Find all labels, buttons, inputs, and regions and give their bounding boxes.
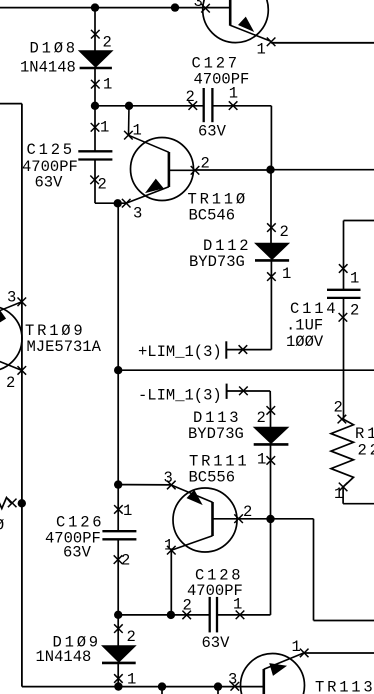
- pin 2 of D109: [114, 624, 123, 633]
- svg-text:2: 2: [280, 223, 289, 241]
- resistor (left, partial): [0, 498, 11, 509]
- wire TR111 pin1 down: [170, 550, 172, 615]
- svg-text:-LIM_1(3): -LIM_1(3): [138, 387, 222, 405]
- resistor R1: [331, 419, 354, 487]
- svg-text:2: 2: [98, 176, 107, 194]
- svg-text:2: 2: [350, 302, 359, 320]
- wire R1 to right edge: [343, 503, 374, 505]
- capacitor C114: [327, 290, 361, 298]
- svg-text:Ø: Ø: [0, 517, 4, 535]
- junction C125/TR110/vertical: [114, 199, 122, 207]
- capacitor C125: [78, 151, 112, 159]
- junction bottom rail / D109: [114, 682, 122, 690]
- svg-text:2: 2: [334, 399, 343, 417]
- pin 2 of TR110: [191, 166, 200, 175]
- transistor TR109 (partial): [0, 302, 22, 371]
- svg-text:TR113: TR113: [315, 679, 374, 694]
- wire TR110 base to node: [195, 169, 271, 171]
- svg-text:63V: 63V: [198, 123, 227, 141]
- capacitor C126: [102, 531, 136, 539]
- svg-text:2: 2: [121, 552, 130, 570]
- svg-text:1N4148: 1N4148: [36, 648, 92, 666]
- wire D112 cathode lead: [270, 170, 272, 243]
- pin of -LIM flag: [239, 387, 248, 396]
- pin 1 of R1: [339, 483, 348, 492]
- junction top rail: [171, 3, 179, 11]
- pin 1 of D108: [91, 80, 100, 89]
- pin 2 of TR111: [234, 514, 243, 523]
- wire R1 bottom lead: [342, 487, 344, 504]
- svg-text:2: 2: [103, 34, 112, 52]
- pin of left resistor: [8, 499, 17, 508]
- wire -LIM flag to D113: [227, 390, 271, 392]
- junction left rail / left resistor: [18, 499, 26, 507]
- svg-text:C125: C125: [27, 141, 75, 159]
- pin 3 of TR109: [18, 298, 27, 307]
- transistor TR112 (top, partial): [203, 0, 271, 43]
- D109 cathode bar: [102, 662, 136, 665]
- svg-text:BC546: BC546: [189, 207, 236, 225]
- diode D112: [255, 243, 289, 260]
- wire C127 pin1 to corner: [212, 105, 271, 107]
- svg-text:22Ø: 22Ø: [358, 442, 374, 460]
- D108 cathode bar: [80, 67, 112, 70]
- wire C125 to TR110 emitter node: [95, 202, 126, 204]
- pin 2 of C114: [339, 313, 348, 322]
- svg-text:BC556: BC556: [189, 469, 236, 487]
- svg-text:4700PF: 4700PF: [187, 582, 243, 600]
- pin 1 of TR111: [167, 546, 176, 555]
- svg-text:1: 1: [103, 76, 112, 94]
- junction central / cap row: [114, 611, 122, 619]
- pin 1 of TR112: [267, 38, 276, 47]
- svg-text:1N4148: 1N4148: [20, 59, 76, 77]
- pin 2 of C128: [182, 611, 191, 620]
- svg-text:1: 1: [123, 502, 132, 520]
- wire right top feed: [344, 220, 374, 222]
- wire corner down to node: [270, 106, 272, 170]
- wire limit rail to right edge: [118, 369, 374, 371]
- wire TR112 emitter to right edge: [271, 42, 374, 44]
- pin 1 of C125: [91, 123, 100, 132]
- svg-text:2: 2: [6, 374, 15, 392]
- junction TR111 base node: [266, 515, 274, 523]
- svg-text:1: 1: [257, 41, 266, 59]
- svg-text:1: 1: [100, 119, 109, 137]
- wire D113 cathode lead: [270, 410, 272, 427]
- wire left vertical rail: [21, 104, 23, 687]
- wire C114 top lead: [343, 221, 345, 290]
- pin 1 of TR113: [300, 649, 309, 658]
- wire D112 anode down to +LIM corner: [270, 260, 272, 349]
- wire cap row left segment: [118, 614, 210, 616]
- wire down right side: [313, 519, 315, 621]
- svg-text:3: 3: [7, 289, 16, 307]
- wire central to TR111 pin3: [118, 484, 171, 486]
- svg-text:1: 1: [334, 485, 343, 503]
- svg-text:1: 1: [282, 265, 291, 283]
- pin 2 of C127: [189, 101, 198, 110]
- junction central/TR111 base row: [114, 480, 122, 488]
- wire D108 cathode lead: [94, 8, 96, 51]
- svg-text:3: 3: [194, 0, 203, 11]
- wire C114 bottom lead to R1: [343, 298, 345, 419]
- capacitor C128: [210, 597, 217, 633]
- junction TR111 pin1 / cap row: [167, 611, 175, 619]
- wire D109 anode lead: [117, 663, 119, 687]
- pin 2 of D108: [91, 30, 100, 39]
- junction bottom rail stub A: [158, 682, 166, 690]
- svg-text:D1Ø8: D1Ø8: [30, 40, 78, 58]
- svg-text:63V: 63V: [202, 634, 231, 652]
- capacitor C127: [204, 88, 213, 122]
- wire D108 anode lead: [94, 68, 96, 106]
- svg-text:1: 1: [257, 451, 266, 469]
- pin 1 of C128: [236, 611, 245, 620]
- pin 1 of D109: [114, 674, 123, 683]
- wire node row y106 left of C127: [95, 105, 204, 107]
- wire node right: [271, 518, 314, 520]
- pin 3 of TR112: [201, 4, 210, 13]
- pin 2 of C125: [90, 176, 99, 185]
- pin 1 of C126: [114, 505, 123, 514]
- D112 cathode bar: [255, 259, 289, 262]
- junction top rail / D108: [91, 3, 99, 11]
- pin 1 of C114: [339, 264, 348, 273]
- wire up to TR111 node: [270, 519, 272, 615]
- svg-text:1ØØV: 1ØØV: [286, 333, 324, 351]
- svg-text:63V: 63V: [63, 544, 92, 562]
- wire bottom rail: [22, 686, 264, 688]
- pin of +LIM flag: [239, 345, 248, 354]
- junction row/TR110 pin1: [125, 102, 133, 110]
- junction D108/C125/row: [91, 102, 99, 110]
- wire C125 top lead: [94, 106, 96, 152]
- junction central/limit rail: [114, 366, 122, 374]
- wire central vertical lower: [117, 539, 119, 645]
- wire TR110 pin1 stub: [128, 106, 131, 135]
- diode D108: [79, 51, 113, 68]
- pin 2 of D112: [267, 223, 276, 232]
- diode D109: [102, 646, 136, 663]
- D113 cathode bar: [254, 443, 289, 446]
- pin 2 of D113: [267, 406, 276, 415]
- svg-text:R11: R11: [355, 425, 374, 443]
- svg-text:BYD73G: BYD73G: [188, 425, 244, 443]
- svg-text:3: 3: [133, 205, 142, 223]
- pin 1 of TR110: [124, 131, 133, 140]
- transistor TR113 (partial): [241, 653, 305, 694]
- pin 1 of C127: [229, 101, 238, 110]
- pin 3 of TR110: [122, 199, 131, 208]
- junction C127/TR110/D112/right: [266, 166, 274, 174]
- svg-text:63V: 63V: [35, 174, 64, 192]
- svg-text:4700PF: 4700PF: [194, 71, 250, 89]
- svg-text:2: 2: [257, 409, 266, 427]
- pin 2 of TR109: [18, 366, 27, 375]
- pin 1 of D112: [267, 272, 276, 281]
- wire to right edge y620: [314, 620, 374, 622]
- wire stub down B: [217, 687, 219, 694]
- wire node to right edge: [271, 169, 374, 171]
- svg-text:BYD73G: BYD73G: [189, 253, 245, 271]
- wire D113 anode to TR111 node: [270, 444, 272, 519]
- svg-text:2: 2: [186, 88, 195, 106]
- svg-text:+LIM_1(3): +LIM_1(3): [138, 343, 222, 361]
- wire stub down A: [161, 687, 163, 694]
- svg-text:3: 3: [228, 671, 237, 689]
- svg-text:MJE5731A: MJE5731A: [27, 338, 102, 356]
- svg-text:3: 3: [164, 469, 173, 487]
- wire corner down to D113: [269, 391, 271, 410]
- net flag bracket -LIM: [226, 384, 228, 399]
- svg-text:1: 1: [292, 638, 301, 656]
- pin 3 of TR113: [231, 682, 240, 691]
- wire cap row right segment: [217, 614, 271, 616]
- pin 3 of TR111: [167, 481, 176, 490]
- svg-text:1: 1: [350, 270, 359, 288]
- wire TR111 base to node: [239, 518, 271, 520]
- transistor TR111: [171, 485, 238, 552]
- wire top rail: [0, 7, 230, 9]
- wire +LIM flag to D112: [226, 349, 271, 351]
- pin 2 of C126: [114, 555, 123, 564]
- junction bottom rail stub B: [214, 682, 222, 690]
- svg-text:C114: C114: [290, 300, 338, 318]
- transistor TR110: [126, 135, 195, 203]
- pin 1 of D113: [267, 456, 276, 465]
- wire left feed: [0, 103, 22, 105]
- pin 2 of R1: [338, 415, 347, 424]
- wire central vertical upper: [117, 203, 119, 531]
- wire C125 bottom lead: [94, 160, 96, 204]
- wire TR113 pin1 to right edge: [304, 652, 374, 654]
- net flag bracket +LIM: [225, 341, 227, 358]
- diode D113: [254, 427, 289, 444]
- svg-text:.1UF: .1UF: [286, 317, 323, 335]
- svg-text:2: 2: [127, 628, 136, 646]
